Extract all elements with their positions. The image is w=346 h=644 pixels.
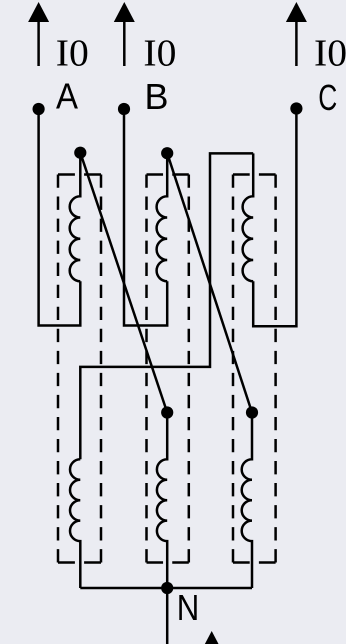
winding L3 upper (core 3) [243,153,254,281]
wire zigzag diagonal: top of upper winding 1 to top of lower winding 2 [80,153,167,413]
node A terminal dot [33,103,45,115]
wire zigzag loop: top of upper winding 3 to top of lower winding 1 [80,153,253,459]
node C terminal dot [290,102,302,114]
node B terminal dot [118,103,130,115]
arrow I0 phase C [286,2,307,66]
wire neutral to ground (runs off bottom edge) [166,588,169,644]
svg-text:I0: I0 [314,33,346,75]
core box 1 (dashed) [58,175,101,563]
wire neutral bus [80,587,252,590]
junction dot top of lower winding 2 [161,406,173,418]
arrow I0 phase A [28,2,49,66]
arrow 3I0 neutral current (clipped at bottom edge) [201,631,222,644]
svg-text:I0: I0 [143,33,176,75]
junction dot top of upper winding 1 [74,147,86,159]
winding L1 upper (core 1) [70,153,81,282]
junction dot top of lower winding 3 [246,406,258,418]
svg-text:A: A [56,76,79,117]
node N junction dot [161,582,173,594]
arrow I0 phase B [114,2,135,66]
winding L2 lower (core 2) [157,413,167,589]
wire phase B to bottom of upper winding 2 [124,109,167,326]
wire phase C to bottom of upper winding 3 [253,109,296,327]
svg-text:I0: I0 [56,33,89,75]
wire phase A to bottom of upper winding 1 [39,109,81,326]
core box 2 (dashed) [147,175,189,563]
winding L2 upper (core 2) [157,153,168,281]
core box 3 (dashed) [233,175,276,563]
winding L1 lower (core 1) [70,459,80,588]
svg-text:C: C [318,77,337,118]
junction dot top of upper winding 2 [161,147,173,159]
svg-text:N: N [177,587,200,628]
winding L3 lower (core 3) [242,413,252,589]
svg-text:B: B [145,76,169,117]
wire zigzag diagonal: top of upper winding 2 to top of lower winding 3 [167,153,252,412]
